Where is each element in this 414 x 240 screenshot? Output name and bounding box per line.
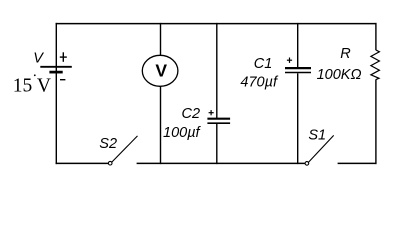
switch S2 contact — [108, 161, 112, 165]
svg-text:C1: C1 — [254, 56, 273, 72]
wire bottom bus right segment — [338, 162, 377, 164]
wire C1 branch top — [297, 23, 299, 67]
svg-text:V: V — [155, 61, 167, 81]
C2 + polarity mark — [209, 110, 214, 115]
wire right branch bottom — [375, 79, 377, 164]
svg-text:C2: C2 — [182, 106, 201, 122]
battery + polarity mark — [60, 52, 67, 62]
stray dot — [34, 74, 36, 76]
wire C2 branch bottom — [216, 124, 218, 164]
wire voltmeter branch top — [160, 23, 162, 56]
wire bottom bus left segment — [56, 162, 109, 164]
switch S2 lever — [112, 136, 138, 162]
svg-text:15 V: 15 V — [13, 76, 51, 97]
wire right branch top — [375, 23, 377, 50]
svg-text:V: V — [33, 51, 44, 67]
battery V negative plate — [49, 71, 62, 74]
capacitor C1 top plate — [285, 67, 311, 69]
svg-text:S2: S2 — [99, 136, 117, 152]
wire top bus — [56, 23, 377, 25]
capacitor C1 bottom plate — [285, 72, 311, 74]
capacitor C2 top plate — [207, 118, 230, 120]
wire left branch (battery branch) — [55, 23, 57, 164]
svg-text:R: R — [340, 46, 351, 62]
svg-text:100µf: 100µf — [163, 125, 202, 141]
resistor R zigzag — [371, 50, 380, 80]
voltmeter body — [142, 55, 178, 86]
switch S1 contact — [305, 162, 309, 166]
wire C1 branch bottom — [297, 73, 299, 164]
capacitor C2 bottom plate — [207, 122, 230, 124]
battery V positive plate — [40, 66, 72, 68]
wire voltmeter branch bottom — [160, 86, 162, 164]
svg-text:100KΩ: 100KΩ — [317, 67, 362, 83]
svg-text:470µf: 470µf — [240, 74, 279, 90]
wire bottom bus middle segment — [137, 162, 306, 164]
svg-text:S1: S1 — [308, 127, 326, 143]
C1 + polarity mark — [287, 58, 292, 63]
wire C2 branch top — [216, 23, 218, 118]
switch S1 lever — [309, 135, 334, 162]
battery - polarity mark — [60, 79, 65, 81]
